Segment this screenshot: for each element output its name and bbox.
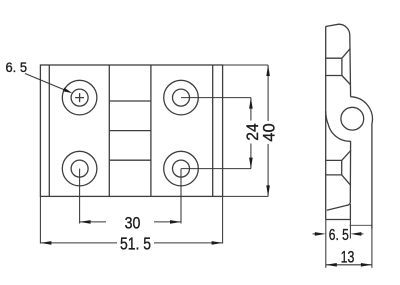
lower countersink bottom line — [326, 174, 342, 176]
upper countersink top line — [326, 57, 342, 59]
extension plate right edge down — [222, 196, 224, 243]
side view left edge — [325, 27, 327, 220]
extension 13 left — [325, 220, 327, 268]
barrel outer arc right and right edge — [351, 97, 373, 229]
upper leaf left edge merge into barrel — [326, 111, 329, 124]
hole top-right bore — [173, 89, 190, 106]
lower leaf right face vertical — [349, 204, 351, 220]
svg-text:6. 5: 6. 5 — [329, 227, 349, 244]
lower leaf right face with taper — [327, 141, 351, 210]
dim line 51.5 left segment — [40, 242, 117, 244]
upper countersink bottom line — [326, 75, 342, 77]
arrowhead 40 top — [266, 65, 270, 76]
dim 6.5 side right extension — [349, 220, 351, 239]
arrowhead 24 bottom — [249, 158, 253, 169]
arrowhead 51.5 right — [212, 241, 223, 245]
arrowhead 24 top — [249, 98, 253, 109]
dim line 40 top segment — [267, 65, 269, 121]
hole bottom-left bore — [71, 160, 88, 177]
dim line 24 bottom segment — [250, 144, 252, 169]
barrel outer arc bottom-left — [328, 124, 350, 141]
hole bottom-right counterbore — [164, 151, 199, 186]
lower countersink chamfer bottom — [342, 175, 351, 186]
svg-text:40: 40 — [260, 123, 279, 141]
hole bottom-right bore — [173, 160, 190, 177]
svg-text:51. 5: 51. 5 — [120, 234, 151, 254]
arrowhead 6.5 side right — [350, 232, 361, 236]
arrowhead 13 right — [361, 263, 372, 267]
upper countersink inner vertical — [341, 58, 343, 75]
hole top-left counterbore — [62, 80, 97, 115]
extension line from top-right hole — [181, 97, 251, 99]
arrowhead 51.5 left — [40, 241, 51, 245]
extension line bottom-right hole down — [180, 169, 182, 224]
dim line 40 bottom segment — [267, 144, 269, 196]
svg-text:30: 30 — [125, 213, 141, 232]
dim line 51.5 right segment — [154, 242, 223, 244]
crosshair top-left hole — [75, 93, 84, 102]
extension 13 right — [371, 225, 373, 267]
upper countersink chamfer top — [342, 49, 350, 59]
lower countersink top line — [326, 159, 342, 161]
svg-text:6. 5: 6. 5 — [6, 59, 28, 75]
arrowhead leader 6.5 front — [63, 88, 73, 94]
hole bottom-left counterbore — [62, 151, 97, 186]
extension plate bottom edge right — [223, 195, 269, 197]
dim 6.5 side left tail — [313, 233, 322, 235]
hole top-right counterbore — [164, 80, 199, 115]
knuckle divider 1 — [109, 100, 151, 102]
upper countersink chamfer bottom — [342, 76, 350, 85]
knuckle divider 2 — [109, 130, 151, 132]
dim 6.5 side right tail — [355, 233, 364, 235]
dim line 13 — [326, 264, 372, 266]
side view bottom edge right part — [350, 224, 372, 226]
arrowhead 30 right — [170, 220, 181, 224]
barrel right line — [150, 65, 152, 196]
left leaf edge line — [48, 65, 50, 196]
extension line from bottom-right hole — [181, 168, 251, 170]
dim line 24 top segment — [250, 98, 252, 121]
svg-text:13: 13 — [341, 249, 355, 267]
dim line 30 left segment — [80, 221, 106, 223]
pin hole circle — [341, 107, 364, 130]
lower countersink inner vertical — [341, 160, 343, 175]
knuckle divider 3 — [109, 159, 151, 161]
extension plate top edge right — [223, 64, 269, 66]
arrowhead 13 left — [326, 263, 337, 267]
lower countersink chamfer top — [342, 150, 351, 160]
arrowhead 40 bottom — [266, 185, 270, 196]
leader line 6.5 front — [25, 74, 66, 91]
arrowhead 6.5 side left — [315, 232, 326, 236]
right leaf edge line — [212, 65, 214, 196]
extension plate left edge down — [39, 196, 41, 243]
hole top-left bore — [71, 89, 88, 106]
barrel left line — [108, 65, 110, 196]
extension line bottom-left hole down — [79, 169, 81, 224]
side view top edge and right edge — [326, 24, 351, 97]
arrowhead 30 left — [80, 220, 91, 224]
side view bottom edge left part — [326, 219, 351, 221]
dim line 30 right segment — [154, 221, 181, 223]
hinge plate outline (front view) — [40, 65, 222, 196]
